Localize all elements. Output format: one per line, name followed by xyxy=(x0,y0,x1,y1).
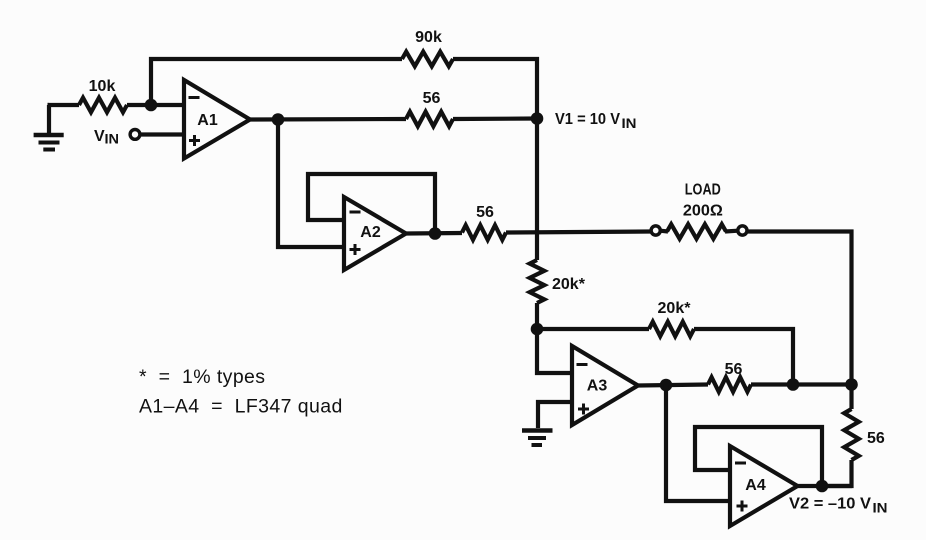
op-amp A2 xyxy=(344,197,406,270)
svg-text:A1: A1 xyxy=(197,112,218,129)
wire A4 feedback loop xyxy=(695,427,822,486)
svg-text:A3: A3 xyxy=(587,378,608,395)
wire A1 output xyxy=(250,117,406,122)
resistor LOAD 200ohm xyxy=(667,224,726,239)
wire right rail down xyxy=(849,385,853,410)
node 20k junction xyxy=(531,323,544,336)
resistor 20k* horizontal xyxy=(649,322,694,337)
node V1 xyxy=(531,112,544,125)
svg-text:20k*: 20k* xyxy=(658,300,692,317)
node load rail junction xyxy=(845,378,858,391)
wire A2 output xyxy=(406,231,462,236)
svg-text:90k: 90k xyxy=(415,29,442,46)
wire xyxy=(535,303,539,329)
svg-text:56: 56 xyxy=(867,430,885,447)
svg-text:V: V xyxy=(94,128,105,145)
resistor 56 vertical xyxy=(844,409,859,460)
svg-text:IN: IN xyxy=(622,115,637,131)
svg-text:A2: A2 xyxy=(360,224,381,241)
resistor 56 (A3 row) xyxy=(708,377,751,392)
resistor 10k xyxy=(79,98,127,113)
wire A3 output xyxy=(638,385,708,386)
node feedback junction xyxy=(787,378,800,391)
svg-text:56: 56 xyxy=(476,204,494,221)
wire xyxy=(822,460,852,486)
wire load to right rail xyxy=(748,232,852,385)
resistor 56 (A1 row) xyxy=(406,112,453,127)
wire xyxy=(751,382,852,386)
svg-text:V1 = 10 V: V1 = 10 V xyxy=(555,111,620,128)
svg-text:V2 = –10 V: V2 = –10 V xyxy=(789,496,871,513)
wire V1 vertical xyxy=(535,119,539,261)
node A1 inverting input junction xyxy=(145,99,158,112)
wire A3 out down to A4 xyxy=(666,385,730,501)
svg-text:A4: A4 xyxy=(745,477,766,494)
op-amp A3 xyxy=(572,346,638,425)
svg-text:56: 56 xyxy=(423,90,441,107)
op-amp A1 xyxy=(184,80,250,159)
op-amp A4 xyxy=(730,446,798,526)
node A4 output junction xyxy=(816,480,829,493)
wire xyxy=(48,103,80,107)
wire xyxy=(453,116,537,121)
node A1 output junction xyxy=(272,113,285,126)
wire A4 output xyxy=(798,484,853,488)
wire xyxy=(694,329,793,385)
svg-text:LOAD: LOAD xyxy=(685,182,721,199)
svg-text:A1–A4 = LF347 quad: A1–A4 = LF347 quad xyxy=(139,396,343,418)
wire xyxy=(127,103,184,107)
wire to A3 inverting input xyxy=(537,329,572,373)
svg-text:56: 56 xyxy=(725,361,743,378)
svg-text:IN: IN xyxy=(105,131,120,147)
resistor 90k xyxy=(402,52,453,67)
resistor 56 (A2 row) xyxy=(462,225,506,240)
wire feedback riser xyxy=(151,59,402,105)
svg-text:200Ω: 200Ω xyxy=(683,203,723,220)
wire stub xyxy=(725,229,738,234)
wire A2 feedback loop xyxy=(308,174,435,234)
node A3 output junction xyxy=(660,379,673,392)
terminal load right xyxy=(738,226,747,235)
wire stub xyxy=(660,229,668,234)
wire A3 noninverting to ground xyxy=(538,402,572,428)
ground xyxy=(522,431,553,446)
svg-text:20k*: 20k* xyxy=(552,276,586,293)
terminal load left xyxy=(651,226,660,235)
wire to load xyxy=(506,232,651,233)
wire xyxy=(537,327,649,331)
wire xyxy=(453,59,537,119)
svg-text:* = 1% types: * = 1% types xyxy=(139,366,265,388)
wire A1 out down to A2 xyxy=(278,120,344,248)
ground xyxy=(34,105,64,150)
node A2 output junction xyxy=(429,227,442,240)
resistor 20k* vertical xyxy=(530,260,545,303)
wire xyxy=(141,132,184,136)
terminal VIN xyxy=(130,130,140,140)
svg-text:10k: 10k xyxy=(89,78,116,95)
svg-text:IN: IN xyxy=(873,500,888,516)
